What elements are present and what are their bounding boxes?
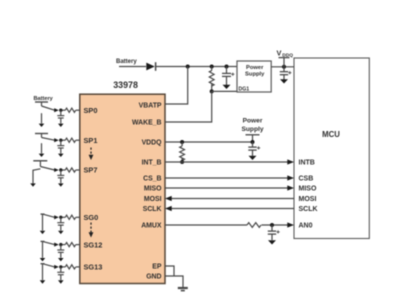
svg-text:MOSI: MOSI — [299, 196, 317, 203]
capacitor C2 (VDD) — [280, 67, 288, 80]
node VDDQ-cap junction — [251, 140, 255, 144]
svg-text:MOSI: MOSI — [144, 196, 162, 203]
wire battery to diode — [119, 66, 146, 68]
capacitor C3 (VDDQ) — [248, 142, 256, 156]
svg-text:SCLK: SCLK — [143, 206, 162, 213]
resistor R-wake (pull-up to battery) — [209, 67, 214, 92]
svg-text:33978: 33978 — [113, 80, 138, 90]
switch SW-SG0 (to ground) — [41, 214, 63, 219]
svg-text:AMUX: AMUX — [141, 223, 162, 230]
capacitor C-SG13 — [57, 267, 64, 284]
ground arrow (SG13 switch) — [40, 264, 46, 284]
resistor R-SP7 — [63, 168, 76, 172]
svg-text:GND: GND — [146, 274, 161, 281]
svg-text:INTB: INTB — [299, 160, 315, 167]
wire EP — [165, 266, 174, 276]
svg-text:AN0: AN0 — [299, 223, 313, 230]
switch SW-SP1 (to battery) — [35, 134, 63, 143]
wire to SG0 pin — [76, 216, 80, 218]
svg-text:SCLK: SCLK — [299, 206, 318, 213]
switch SW-SG12 (to ground) — [41, 241, 63, 246]
svg-text:CSB: CSB — [299, 176, 314, 183]
capacitor C-SP1 — [57, 140, 64, 157]
wire PS1 output to MCU — [271, 66, 294, 68]
capacitor C-SG12 — [57, 245, 64, 262]
polarity mark (C2) — [288, 71, 291, 74]
ground arrow (C4) — [268, 240, 276, 244]
polarity mark (C3) — [257, 146, 260, 149]
ground arrow (C3) — [249, 156, 257, 160]
resistor R-SG12 — [63, 243, 76, 247]
wire MOSI from MCU — [165, 196, 294, 201]
supply bar VDDQ — [279, 57, 290, 59]
diode D1 — [146, 62, 155, 71]
ground arrow (C2) — [280, 79, 288, 83]
wire VDDQ pin line — [165, 141, 253, 143]
resistor R-SP1 — [63, 138, 76, 142]
svg-text:Power: Power — [243, 118, 263, 125]
ground arrow (SP7 switch) — [30, 169, 40, 187]
switch SW-SP0 (to battery) — [35, 102, 63, 112]
polarity mark (C1) — [231, 73, 234, 76]
ground arrow (SP0 switch) — [39, 113, 45, 127]
resistor R-SG13 — [63, 265, 76, 269]
svg-text:SP7: SP7 — [84, 166, 98, 175]
node battery-VBATP junction — [186, 65, 190, 69]
ground arrow (SG0 switch) — [40, 214, 46, 234]
switch SW-SP7 (to battery) — [33, 161, 62, 172]
svg-text:Supply: Supply — [245, 72, 265, 78]
wire to SG12 pin — [76, 244, 80, 246]
svg-text:CS_B: CS_B — [143, 176, 161, 183]
resistor R-SP0 — [63, 108, 76, 112]
IC U1 33978 body — [80, 94, 165, 283]
wire MISO to MCU — [165, 185, 294, 190]
wire SCLK from MCU — [165, 206, 294, 211]
svg-text:MCU: MCU — [322, 130, 340, 139]
polarity mark (C4) — [277, 230, 280, 233]
ground arrow (SP1 switch) — [39, 143, 45, 157]
label VDDQ supply — [277, 48, 294, 58]
wire junction to WAKE_B — [165, 91, 212, 122]
svg-text:Power: Power — [246, 65, 264, 71]
wire CS_B to MCU — [165, 175, 294, 180]
resistor R-int pull-up — [180, 142, 185, 162]
node resistor-bottom junction — [210, 89, 214, 93]
svg-text:WAKE_B: WAKE_B — [132, 120, 162, 127]
wire to VBATP pin — [165, 67, 188, 105]
svg-text:Battery: Battery — [34, 96, 54, 102]
power supply PS1 box — [237, 61, 271, 92]
svg-text:SG13: SG13 — [84, 263, 103, 272]
wire INT_B to MCU — [165, 159, 294, 164]
ground symbol (GND pin) — [178, 288, 188, 291]
svg-text:DG1: DG1 — [239, 86, 250, 92]
wire diode to power supply — [155, 66, 237, 68]
node INT_B junction — [180, 160, 184, 164]
capacitor C-SP0 — [57, 110, 64, 127]
svg-text:SP1: SP1 — [84, 136, 98, 145]
node VDD junction — [282, 65, 286, 69]
svg-text:MISO: MISO — [144, 186, 162, 193]
wire AMUX to filter — [165, 224, 247, 226]
svg-text:SP0: SP0 — [84, 106, 98, 115]
svg-text:VDDQ: VDDQ — [142, 140, 163, 147]
svg-text:VBATP: VBATP — [139, 102, 162, 109]
wire to SP0 pin — [76, 109, 80, 111]
svg-text:MISO: MISO — [299, 186, 317, 193]
svg-text:SG12: SG12 — [84, 240, 103, 249]
node battery-resistor junction — [210, 65, 214, 69]
dashed arrow SP1 to SP7 — [89, 148, 94, 161]
svg-text:Battery: Battery — [116, 59, 137, 65]
wire GND — [165, 276, 183, 287]
svg-text:Supply: Supply — [242, 126, 264, 133]
resistor R-SG0 — [63, 215, 76, 219]
node VDDQ-pullup junction — [180, 140, 184, 144]
capacitor C-SP7 — [57, 170, 64, 187]
capacitor C-SG0 — [57, 217, 64, 234]
node battery-cap junction — [225, 65, 229, 69]
capacitor C1 (battery rail) — [222, 67, 231, 86]
supply bar (VDDQ source) — [246, 134, 260, 136]
resistor R-amux — [247, 223, 261, 228]
node AMUX-cap junction — [270, 223, 274, 227]
capacitor C4 (AN0 filter) — [268, 225, 276, 240]
svg-text:V: V — [277, 48, 282, 57]
ground arrow (SG12 switch) — [40, 241, 46, 261]
svg-text:EP: EP — [152, 264, 162, 271]
dashed arrow SG0 to SG12 — [89, 223, 94, 238]
wire filter to MCU AN0 — [262, 222, 295, 227]
MCU block — [294, 58, 369, 239]
svg-text:INT_B: INT_B — [142, 160, 162, 167]
svg-text:SG0: SG0 — [84, 213, 99, 222]
ground arrow (C1) — [223, 85, 231, 89]
switch SW-SG13 (to ground) — [41, 264, 63, 269]
wire junction to DG1 — [212, 90, 238, 92]
wire to SP7 pin — [76, 169, 80, 171]
wire to SG13 pin — [76, 266, 80, 268]
wire supply bar to VDDQ line — [252, 135, 254, 142]
wire to SP1 pin — [76, 139, 80, 141]
wire VDDQ bar to node — [283, 58, 285, 67]
